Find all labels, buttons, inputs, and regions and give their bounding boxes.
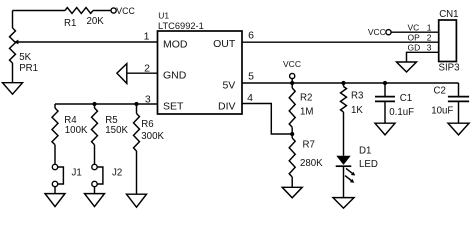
wire pin 4 DIV [242, 104, 292, 135]
svg-text:R2: R2 [300, 93, 312, 104]
svg-text:CN1: CN1 [439, 9, 458, 20]
svg-text:J2: J2 [112, 168, 122, 179]
jumper J1 [52, 164, 57, 169]
wire [136, 151, 138, 194]
wire [291, 177, 293, 187]
svg-text:100K: 100K [65, 125, 88, 136]
resistor R2 [290, 81, 294, 85]
svg-text:GD: GD [408, 43, 421, 53]
svg-text:U1: U1 [158, 10, 169, 20]
svg-text:C1: C1 [400, 93, 412, 104]
wire [93, 10, 111, 12]
resistor R6 [134, 102, 138, 106]
ground [375, 123, 395, 135]
svg-text:D1: D1 [359, 146, 371, 157]
ground [85, 194, 105, 207]
wire [54, 145, 56, 165]
op-amp U1 LTC6992-1 [158, 31, 243, 114]
svg-text:0.1uF: 0.1uF [389, 107, 414, 118]
wire pin 3 SET [55, 103, 158, 105]
svg-text:1: 1 [144, 31, 150, 43]
connector CN1 SIP3 [439, 20, 457, 62]
svg-text:280K: 280K [300, 158, 323, 169]
svg-text:150K: 150K [105, 125, 128, 136]
svg-text:3: 3 [145, 93, 151, 105]
svg-text:5: 5 [248, 71, 254, 83]
svg-text:300K: 300K [141, 131, 164, 142]
ground [45, 194, 65, 207]
ground [397, 62, 417, 72]
potentiometer PR1 [10, 28, 16, 63]
svg-text:DIV: DIV [218, 101, 236, 113]
resistor R1 [65, 8, 93, 14]
wire [54, 187, 56, 194]
ground [127, 194, 147, 207]
svg-text:2: 2 [144, 63, 150, 75]
LED D1 [336, 156, 350, 165]
svg-text:1K: 1K [351, 105, 363, 116]
wire [13, 10, 66, 12]
svg-text:R7: R7 [303, 140, 315, 151]
resistor R5 [92, 102, 96, 106]
svg-text:R1: R1 [64, 18, 76, 29]
svg-text:1: 1 [427, 23, 432, 33]
wire pin VC 1 [391, 31, 439, 33]
jumper J2 [92, 164, 97, 169]
svg-text:VCC: VCC [368, 27, 386, 37]
svg-text:5V: 5V [222, 80, 235, 92]
wire pin 5 5V rail [242, 82, 459, 84]
svg-text:5K: 5K [19, 52, 31, 63]
capacitor C2 [458, 83, 460, 96]
svg-text:PR1: PR1 [19, 63, 38, 74]
node VCC terminal [111, 8, 116, 13]
svg-text:20K: 20K [87, 16, 105, 27]
svg-text:MOD: MOD [163, 39, 188, 51]
svg-text:10uF: 10uF [431, 106, 453, 117]
svg-text:3: 3 [427, 43, 432, 53]
wire pin 6 OUT to OP [242, 41, 439, 43]
svg-text:LTC6992-1: LTC6992-1 [158, 21, 204, 31]
ground port pin 2 [117, 64, 127, 84]
svg-text:OUT: OUT [213, 38, 236, 50]
wire pin 2 GND [127, 72, 158, 74]
wire [343, 166, 345, 197]
svg-text:J1: J1 [72, 168, 82, 179]
wire pin 1 MOD [18, 41, 158, 43]
svg-text:SIP3: SIP3 [439, 63, 460, 74]
svg-text:GND: GND [163, 70, 187, 82]
wire [343, 112, 345, 156]
svg-text:SET: SET [163, 101, 184, 113]
resistor R7 [289, 138, 295, 177]
resistor R4 [54, 104, 56, 108]
svg-text:2: 2 [427, 33, 432, 43]
svg-text:OP: OP [408, 33, 421, 43]
resistor R3 [341, 81, 345, 85]
svg-text:1M: 1M [300, 107, 313, 118]
svg-text:C2: C2 [434, 86, 446, 97]
svg-text:VCC: VCC [116, 6, 135, 16]
ground [282, 187, 302, 198]
wire [94, 145, 96, 165]
capacitor C1 [383, 81, 387, 85]
wire pin GD 3 [407, 52, 439, 62]
ground [333, 198, 354, 209]
wire [291, 127, 293, 138]
ground [448, 123, 469, 135]
svg-text:4: 4 [247, 92, 253, 104]
svg-text:6: 6 [248, 30, 254, 42]
svg-text:VCC: VCC [283, 59, 301, 69]
ground [3, 83, 23, 95]
svg-text:VC: VC [408, 23, 420, 33]
svg-text:R3: R3 [351, 91, 363, 102]
wire [94, 187, 96, 194]
svg-text:LED: LED [359, 159, 378, 170]
wire [12, 63, 14, 83]
svg-text:R6: R6 [141, 119, 153, 130]
wire [12, 11, 14, 29]
